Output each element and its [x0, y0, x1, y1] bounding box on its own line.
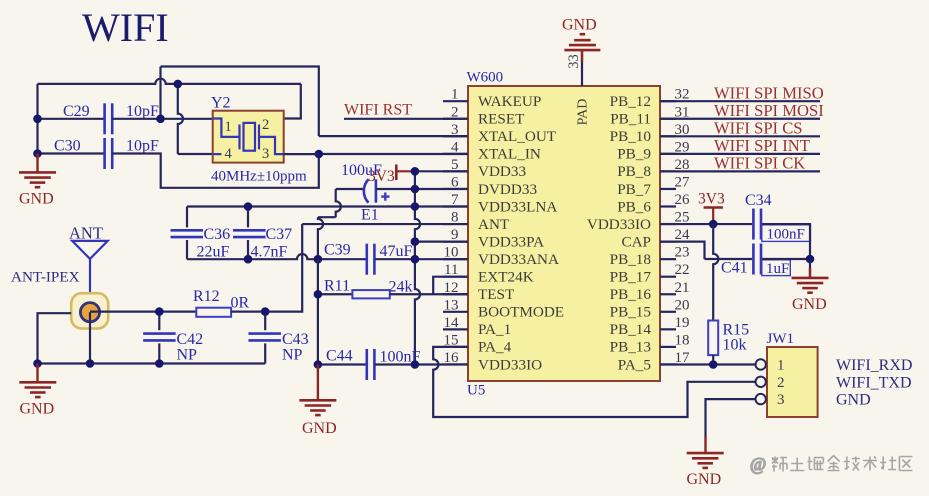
ground GND (antenna) — [36, 364, 38, 383]
svg-text:23: 23 — [675, 245, 690, 261]
svg-text:EXT24K: EXT24K — [478, 269, 534, 286]
wire CAP pin24 jog to C41 — [660, 242, 705, 259]
svg-text:1uF: 1uF — [766, 261, 789, 277]
wire E1 negative zigzag to ground rail — [336, 189, 341, 217]
wire WIFI_SPI_MOSI — [660, 118, 820, 120]
capacitor C37 — [247, 207, 249, 228]
svg-text:16: 16 — [444, 350, 460, 366]
svg-text:C42: C42 — [177, 331, 204, 348]
pin name PAD (rotated) — [576, 99, 591, 126]
wire loop from C29 node up over to XTAL_OUT row — [159, 67, 161, 119]
capacitor C42 — [158, 312, 160, 331]
node junction C44 left — [314, 360, 323, 369]
svg-text:C30: C30 — [54, 138, 81, 155]
svg-text:19: 19 — [675, 315, 690, 331]
capacitor C41 — [753, 244, 761, 275]
wire PA_4 row 15 to JW1 pin2 (long bottom route) — [433, 347, 755, 417]
pin 28 (PB_8) stub — [660, 170, 676, 172]
svg-text:C44: C44 — [326, 348, 353, 365]
pin 25 (VDD33IO) stub — [660, 223, 676, 225]
svg-text:C29: C29 — [63, 103, 90, 120]
svg-text:VDD33LNA: VDD33LNA — [478, 198, 557, 215]
wire C41 right to GND node — [762, 258, 810, 260]
wire PA_5 pin17 to JW1 pin1 — [660, 363, 756, 365]
wire IPEX shield to ground rail — [38, 313, 72, 363]
svg-text:24k: 24k — [389, 279, 413, 296]
svg-text:2: 2 — [777, 375, 785, 391]
svg-text:PB_14: PB_14 — [610, 321, 652, 338]
svg-text:WIFI SPI MOSI: WIFI SPI MOSI — [714, 101, 824, 120]
wire Y2 pin4 ground branch with hop over C29 row — [178, 84, 183, 154]
svg-text:1: 1 — [777, 358, 785, 374]
node junction rail/C29 — [33, 115, 42, 124]
node junction C37 top — [244, 202, 253, 211]
pin 1 (WAKEUP) stub — [443, 100, 468, 102]
svg-text:PB_7: PB_7 — [617, 181, 651, 198]
pin 3 (XTAL_OUT) stub — [443, 135, 468, 137]
svg-text:4: 4 — [225, 146, 233, 162]
node junctions on power bus — [411, 167, 420, 176]
svg-text:1: 1 — [451, 87, 459, 103]
capacitor E1 electrolytic — [336, 188, 365, 190]
wire Y2 pin3 to node — [284, 153, 319, 155]
wire R12 right to ANT row 8 — [231, 224, 302, 312]
svg-text:XTAL_IN: XTAL_IN — [478, 146, 541, 163]
svg-text:BOOTMODE: BOOTMODE — [478, 304, 564, 321]
svg-text:26: 26 — [675, 192, 691, 208]
svg-text:5: 5 — [451, 157, 459, 173]
wire EXT24K row 11 step — [433, 277, 468, 295]
wire C30 right plate down-loop to XTAL_IN node — [112, 154, 319, 188]
svg-text:VDD33ANA: VDD33ANA — [478, 251, 559, 268]
svg-text:8: 8 — [451, 210, 459, 226]
svg-text:NP: NP — [282, 347, 303, 364]
svg-text:PB_16: PB_16 — [610, 286, 652, 303]
node junction R12 left / C42 — [155, 307, 164, 316]
svg-text:NP: NP — [177, 347, 198, 364]
capacitor C36 — [186, 207, 188, 228]
svg-text:Y2: Y2 — [211, 95, 231, 112]
svg-text:@: @ — [750, 454, 766, 474]
svg-text:GND: GND — [792, 296, 827, 313]
pin 7 (VDD33LNA) stub — [443, 205, 468, 207]
node junction rail/C30 — [33, 149, 42, 158]
svg-text:4.7nF: 4.7nF — [251, 244, 288, 261]
svg-text:WIFI SPI MISO: WIFI SPI MISO — [714, 83, 824, 102]
pin 33 (PAD) stub — [581, 51, 583, 86]
capacitor C34 — [753, 209, 761, 240]
node junction IPEX down — [86, 359, 95, 368]
pin 16 (VDD33IO) stub — [443, 363, 468, 365]
pin 31 (PB_11) stub — [660, 118, 676, 120]
svg-text:PB_9: PB_9 — [617, 146, 651, 163]
power 3V3 (left) — [395, 165, 398, 181]
crystal Y2 internal leads and element — [213, 119, 284, 155]
wire GND left rail vertical — [36, 84, 38, 155]
wire WIFI_SPI_INT — [660, 153, 820, 155]
ground GND (PAD pin 33) — [581, 50, 583, 62]
svg-text:RESET: RESET — [478, 111, 525, 128]
svg-text:21: 21 — [675, 280, 690, 296]
pin 5 (VDD33) stub — [443, 170, 468, 172]
wire ANT row 8 — [302, 223, 468, 225]
svg-text:WIFI_TXD: WIFI_TXD — [836, 374, 912, 391]
svg-text:40MHz±10ppm: 40MHz±10ppm — [211, 169, 307, 185]
pin 8 (ANT) stub — [443, 223, 468, 225]
svg-text:PAD: PAD — [576, 99, 591, 126]
svg-text:1: 1 — [225, 119, 232, 135]
wire JW1 pin3 to GND — [706, 399, 756, 437]
pin 27 (PB_7) stub — [660, 188, 676, 190]
wire C34 right down to GND — [762, 224, 810, 259]
wire VDD33LNA row 7 rail — [187, 205, 468, 207]
node junction XTAL_IN — [315, 150, 324, 159]
svg-text:PB_18: PB_18 — [610, 251, 652, 268]
svg-text:4: 4 — [451, 139, 459, 155]
svg-text:PA_5: PA_5 — [618, 356, 651, 373]
pin 9 (VDD33PA) stub — [443, 241, 468, 243]
pin 2 (RESET) stub — [443, 118, 468, 120]
node junction R12 right / C43 — [261, 307, 270, 316]
wire WIFI_SPI_CK — [660, 170, 820, 172]
svg-text:PB_8: PB_8 — [617, 163, 651, 180]
svg-text:CAP: CAP — [621, 233, 651, 250]
svg-text:47uF: 47uF — [380, 243, 413, 260]
capacitor C43 — [264, 312, 266, 331]
antenna symbol — [72, 241, 108, 304]
wire IPEX center down — [89, 312, 91, 363]
crystal Y2 body — [213, 111, 284, 163]
svg-text:100nF: 100nF — [767, 227, 805, 243]
svg-text:10k: 10k — [723, 337, 747, 354]
pin 32 (PB_12) stub — [660, 100, 676, 102]
svg-text:VDD33PA: VDD33PA — [478, 233, 544, 250]
capacitor C29 — [38, 118, 105, 120]
svg-text:0R: 0R — [231, 295, 250, 312]
pin 15 (PA_4) stub — [443, 346, 468, 348]
svg-text:WIFI SPI INT: WIFI SPI INT — [714, 136, 810, 155]
pin 14 (PA_1) stub — [443, 328, 468, 330]
plus sign (E1) — [381, 193, 389, 201]
node junction rail left corner — [33, 359, 42, 368]
wire Y2 pin2 ground branch — [284, 84, 301, 119]
svg-text:22uF: 22uF — [197, 244, 230, 261]
svg-text:10pF: 10pF — [126, 138, 159, 155]
svg-text:R12: R12 — [193, 288, 220, 305]
svg-text:100uF: 100uF — [341, 162, 382, 179]
svg-text:VDD33IO: VDD33IO — [587, 216, 651, 233]
svg-text:33: 33 — [566, 54, 582, 69]
svg-text:14: 14 — [444, 315, 460, 331]
svg-text:27: 27 — [675, 174, 691, 190]
svg-text:W600: W600 — [467, 70, 504, 86]
wire C44 right / VDD33IO row 16 with hop — [375, 363, 468, 365]
wire ground rail row 10 horizontal with hop over ANT drop — [187, 254, 366, 259]
wire WIFI_SPI_CS — [660, 135, 820, 137]
svg-text:PA_4: PA_4 — [478, 339, 512, 356]
wire VDD33PA row 9 — [415, 241, 468, 243]
svg-text:20: 20 — [675, 297, 690, 313]
svg-text:ANT-IPEX: ANT-IPEX — [11, 269, 80, 286]
svg-text:VDD33IO: VDD33IO — [478, 356, 542, 373]
pin 23 (PB_18) stub — [660, 258, 676, 260]
ground GND (JW1) — [704, 436, 706, 453]
svg-text:C39: C39 — [324, 242, 351, 259]
svg-text:PB_11: PB_11 — [610, 111, 651, 128]
svg-text:VDD33: VDD33 — [478, 163, 526, 180]
svg-text:GND: GND — [687, 471, 722, 488]
IC U5 W600 body — [468, 86, 660, 381]
wire IPEX center to R12 — [90, 311, 196, 313]
svg-text:2: 2 — [451, 104, 459, 120]
wire WIFI_SPI_MISO — [660, 100, 820, 102]
svg-text:PB_15: PB_15 — [610, 304, 651, 321]
svg-text:11: 11 — [444, 262, 458, 278]
svg-text:PB_13: PB_13 — [610, 339, 651, 356]
svg-text:12: 12 — [444, 280, 459, 296]
svg-text:3: 3 — [777, 392, 785, 408]
pin 21 (PB_16) stub — [660, 293, 676, 295]
pin 20 (PB_15) stub — [660, 311, 676, 313]
capacitor C44 — [318, 363, 366, 365]
node junction 3V3 pin25 — [709, 220, 718, 229]
svg-text:3: 3 — [262, 146, 269, 162]
svg-text:DVDD33: DVDD33 — [478, 181, 537, 198]
pin 2 (JW1) circle — [756, 377, 766, 387]
wire line B (crystal case ground) horizontal with hop — [38, 79, 301, 84]
pin 30 (PB_10) stub — [660, 135, 676, 137]
pin 22 (PB_17) stub — [660, 276, 676, 278]
pin 11 (EXT24K) stub — [443, 276, 468, 278]
svg-text:XTAL_OUT: XTAL_OUT — [478, 128, 557, 145]
pin 12 (TEST) stub — [443, 293, 468, 295]
svg-text:GND: GND — [836, 392, 871, 409]
svg-text:C41: C41 — [721, 260, 748, 277]
node junction ground rail top — [314, 255, 323, 264]
resistor R11 — [318, 293, 353, 295]
svg-text:ANT: ANT — [69, 224, 103, 243]
pin 10 (VDD33ANA) stub — [443, 258, 468, 260]
node junction C34/C41 gnd — [806, 255, 815, 264]
node junction C29/loop — [156, 115, 165, 124]
pin number 33 (rotated) — [566, 54, 582, 69]
svg-text:R11: R11 — [324, 278, 350, 295]
wire XTAL_OUT row 3 — [319, 135, 468, 137]
node junction C37 bottom — [244, 255, 253, 264]
node junction R11 left — [314, 290, 323, 299]
svg-text:6: 6 — [451, 174, 459, 190]
svg-text:15: 15 — [444, 332, 459, 348]
svg-text:3V3: 3V3 — [698, 191, 725, 208]
svg-text:WIFI SPI CK: WIFI SPI CK — [714, 154, 805, 173]
svg-text:PA_1: PA_1 — [478, 321, 511, 338]
svg-text:C37: C37 — [266, 226, 293, 243]
pin 26 (PB_6) stub — [660, 205, 676, 207]
svg-text:PB_10: PB_10 — [610, 128, 652, 145]
svg-text:GND: GND — [302, 420, 337, 437]
svg-text:WAKEUP: WAKEUP — [478, 93, 541, 110]
ground GND (crystal rail) — [36, 154, 38, 173]
svg-text:ANT: ANT — [478, 216, 510, 233]
wire R11 right to TEST row 12 with hop over bus — [390, 293, 468, 295]
svg-text:7: 7 — [451, 192, 459, 208]
pin 17 (PA_5) stub — [660, 363, 676, 365]
connector JW1 body — [767, 347, 818, 417]
value 100nF (C34) boxed — [762, 225, 811, 242]
svg-text:WIFI SPI CS: WIFI SPI CS — [714, 119, 803, 138]
capacitor C39 — [367, 244, 375, 275]
wire E1 right / DVDD33 row 6 — [376, 188, 468, 190]
pin 4 (XTAL_IN) stub — [443, 153, 468, 155]
svg-text:E1: E1 — [361, 207, 379, 224]
pin 13 (BOOTMODE) stub — [443, 311, 468, 313]
svg-text:WIFI RST: WIFI RST — [344, 102, 412, 119]
pin 1 (JW1) circle — [756, 359, 766, 369]
svg-text:PB_12: PB_12 — [610, 93, 651, 110]
svg-text:9: 9 — [451, 227, 459, 243]
node junction bus bottom — [411, 360, 420, 369]
svg-text:3: 3 — [451, 122, 459, 138]
pin 18 (PB_13) stub — [660, 346, 676, 348]
svg-text:13: 13 — [444, 297, 459, 313]
node junction R15 bottom — [709, 360, 718, 369]
watermark — [750, 454, 912, 474]
wire C39 right to bus / VDD33ANA row 10 — [375, 258, 468, 260]
svg-text:GND: GND — [19, 191, 54, 208]
ground GND (C34/C41) — [809, 259, 811, 277]
svg-text:WIFI_RXD: WIFI_RXD — [836, 357, 912, 374]
wire XTAL_IN row 4 — [319, 153, 468, 155]
pin 3 (JW1) circle — [756, 394, 766, 404]
value 1uF (C41) boxed — [762, 260, 791, 276]
pin 24 (CAP) stub — [660, 241, 676, 243]
pin 19 (PB_14) stub — [660, 328, 676, 330]
wire ground rail vertical — [317, 259, 319, 364]
resistor R15 — [713, 224, 718, 320]
svg-text:10: 10 — [444, 245, 459, 261]
svg-text:JW1: JW1 — [767, 331, 795, 347]
svg-text:WIFI: WIFI — [82, 5, 169, 50]
svg-text:C36: C36 — [204, 226, 231, 243]
ground GND (C44) — [317, 365, 319, 401]
wire VDD33 row 5 — [415, 170, 468, 172]
power bus vertical 3V3 — [415, 171, 420, 364]
svg-text:22: 22 — [675, 262, 690, 278]
wire RESET row 2 — [344, 118, 468, 120]
resistor R12 — [196, 308, 231, 317]
wire C29 right to Y2 pin1 with hop — [112, 118, 213, 120]
node junction C42 bottom — [155, 359, 164, 368]
svg-text:PB_17: PB_17 — [610, 269, 652, 286]
svg-text:2: 2 — [262, 117, 269, 133]
svg-text:TEST: TEST — [478, 286, 515, 303]
svg-text:10pF: 10pF — [126, 103, 159, 120]
svg-text:C34: C34 — [745, 192, 772, 209]
pin 6 (DVDD33) stub — [443, 188, 468, 190]
capacitor C30 — [38, 152, 105, 154]
node junction line B / pin4 branch — [174, 80, 183, 89]
svg-text:C43: C43 — [282, 331, 309, 348]
svg-text:PB_6: PB_6 — [617, 198, 651, 215]
wire antenna ground rail bottom — [38, 362, 266, 364]
svg-text:GND: GND — [20, 401, 55, 418]
svg-text:U5: U5 — [467, 383, 485, 399]
svg-text:18: 18 — [675, 332, 690, 348]
svg-text:GND: GND — [562, 17, 597, 34]
pin 29 (PB_9) stub — [660, 153, 676, 155]
connector ANT-IPEX — [71, 293, 108, 328]
wire VDD33IO pin25 row — [660, 223, 752, 225]
